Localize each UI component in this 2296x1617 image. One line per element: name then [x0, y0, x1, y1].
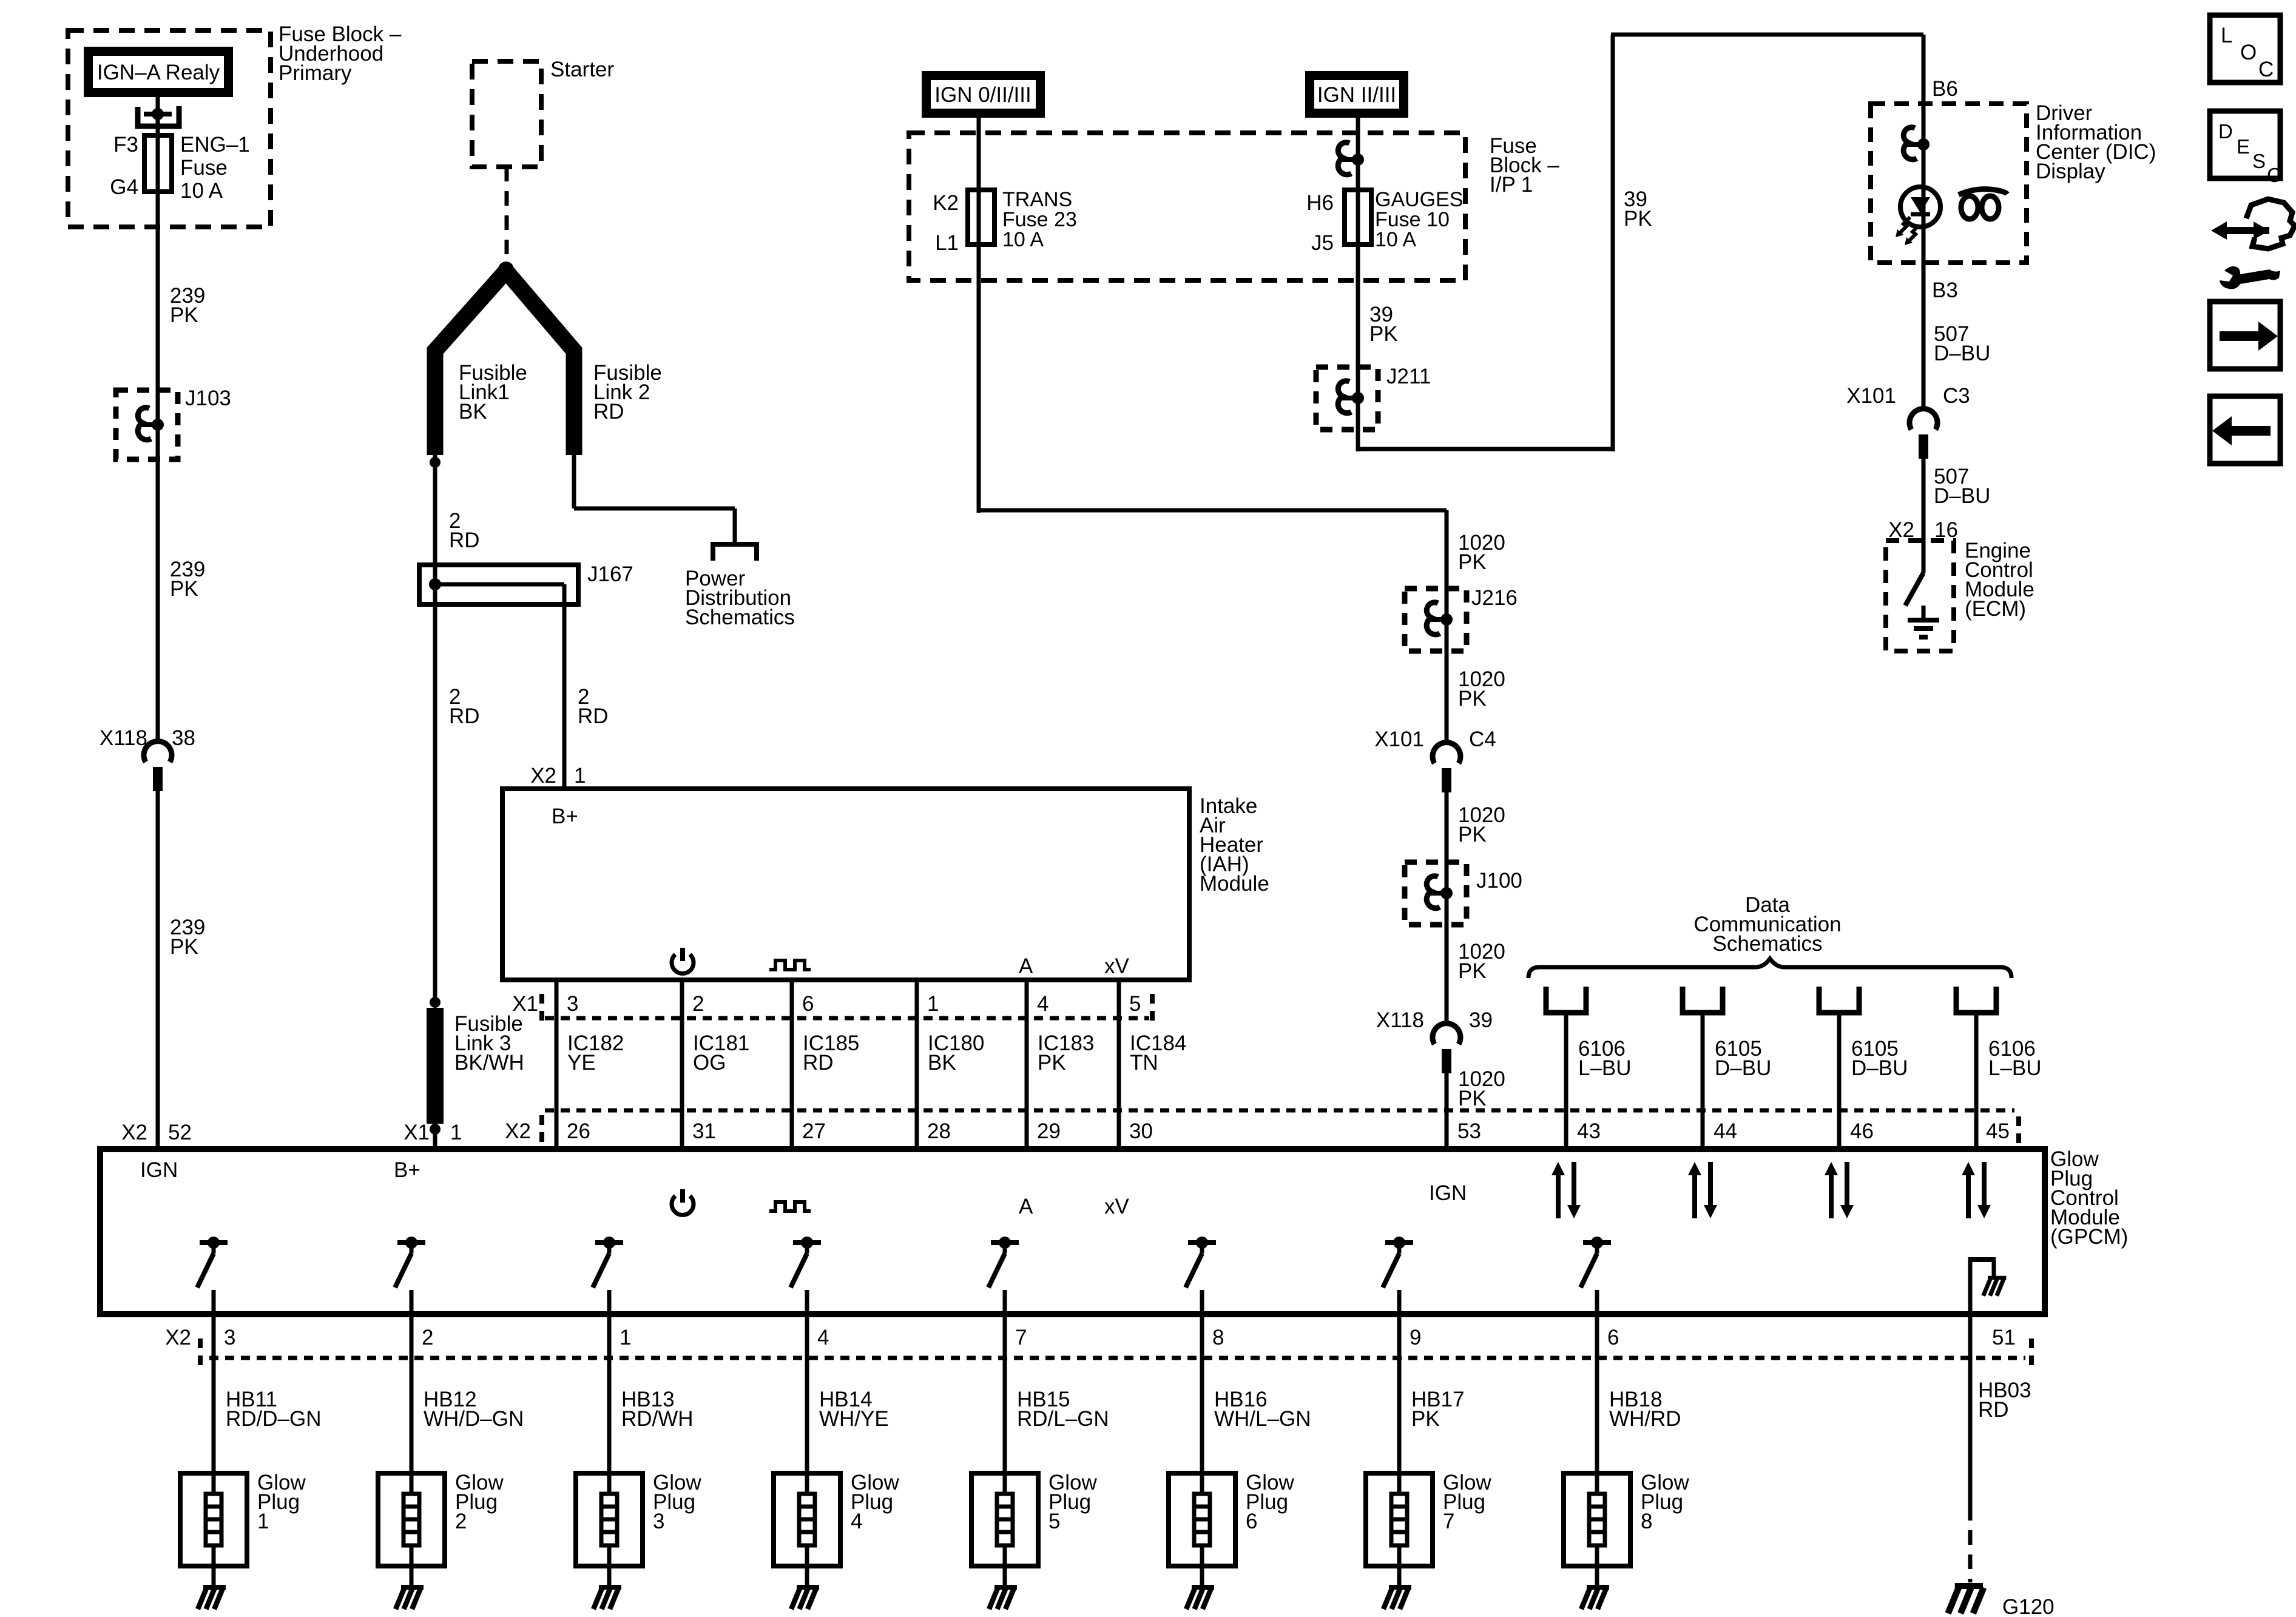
svg-text:8: 8: [1641, 1510, 1652, 1533]
wire link2 to power dist: [572, 455, 576, 508]
svg-text:J103: J103: [185, 387, 231, 410]
svg-text:(GPCM): (GPCM): [2050, 1225, 2128, 1249]
svg-text:39: 39: [1469, 1008, 1493, 1032]
svg-text:Module: Module: [1200, 872, 1269, 896]
data link connector 6106 L–BU: [1956, 987, 1996, 1013]
starter box: [472, 61, 541, 167]
switch for glow plug 6: [1188, 1240, 1216, 1245]
wire GPCM pin 7: [1003, 1290, 1007, 1473]
splice node in DIC: [1903, 127, 1917, 160]
wire trans fuse down: [977, 245, 981, 513]
splice J211: [1316, 367, 1378, 430]
wire 239 PK: [156, 459, 160, 739]
icon pwm (GPCM): [769, 1202, 811, 1211]
ECM box: [1886, 541, 1954, 651]
svg-text:PK: PK: [1369, 322, 1398, 346]
svg-text:5: 5: [1129, 992, 1141, 1016]
wire 1020 PK: [1445, 1072, 1449, 1149]
power distribution bracket: [713, 544, 757, 561]
svg-text:J167: J167: [587, 562, 633, 586]
svg-text:A: A: [1019, 1195, 1033, 1218]
wire HB03 RD: [1968, 1358, 1973, 1506]
wire: [1356, 118, 1360, 191]
svg-text:xV: xV: [1104, 1195, 1130, 1218]
relay pin cup: [138, 106, 179, 126]
svg-text:Schematics: Schematics: [1713, 932, 1823, 956]
wire 39 PK: [1356, 245, 1360, 367]
svg-text:IGN II/III: IGN II/III: [1317, 83, 1396, 107]
svg-text:2: 2: [422, 1326, 433, 1349]
wire 507 D-BU: [1922, 457, 1926, 541]
fuse block I/P box: [909, 133, 1465, 280]
splice node in fuse block: [1338, 143, 1351, 175]
wire to ground: [607, 1566, 612, 1586]
svg-text:43: 43: [1577, 1119, 1601, 1143]
svg-text:C: C: [2267, 164, 2281, 186]
svg-text:53: 53: [1457, 1119, 1481, 1143]
switch in ECM: [1922, 541, 1926, 573]
svg-text:1: 1: [257, 1510, 269, 1533]
relay IGN-A Realy: [84, 47, 233, 97]
arrows pin 45: [1966, 1173, 1971, 1218]
svg-text:ENG–1: ENG–1: [180, 133, 250, 157]
icon power (GPCM): [672, 1196, 694, 1215]
icon pwm (IAH): [769, 960, 811, 970]
svg-text:WH/D–GN: WH/D–GN: [424, 1407, 524, 1431]
glow plug 6: [1169, 1473, 1235, 1566]
wire 2 RD left: [433, 565, 437, 1002]
svg-text:38: 38: [172, 726, 195, 750]
wire dashed to G120: [1968, 1506, 1973, 1582]
wire to ground: [805, 1566, 809, 1586]
wire GPCM pin 8: [1200, 1290, 1204, 1473]
svg-text:WH/RD: WH/RD: [1609, 1407, 1681, 1431]
wire 1020 PK: [1445, 925, 1449, 1021]
svg-text:C3: C3: [1943, 384, 1970, 408]
svg-text:B6: B6: [1932, 77, 1958, 101]
wire: [1922, 104, 1926, 146]
wire IAH pin 3 to GPCM pin 26 (IC182 YE): [555, 980, 559, 1149]
wire 1020 PK: [1445, 651, 1449, 740]
svg-text:L–BU: L–BU: [1988, 1056, 2042, 1080]
svg-text:X2: X2: [530, 764, 556, 788]
svg-text:J5: J5: [1311, 231, 1334, 255]
splice J216: [1405, 589, 1467, 651]
svg-text:5: 5: [1048, 1510, 1060, 1533]
fusible link 1 BK: [435, 268, 508, 455]
ground in ECM: [1922, 606, 1926, 619]
wire IAH pin 6 to GPCM pin 27 (IC185 RD): [790, 980, 794, 1149]
svg-text:OG: OG: [693, 1051, 726, 1075]
svg-text:D–BU: D–BU: [1715, 1056, 1771, 1080]
svg-text:2: 2: [455, 1510, 467, 1533]
svg-text:28: 28: [927, 1119, 951, 1143]
svg-text:PK: PK: [1458, 687, 1487, 711]
wire: [1922, 144, 1926, 263]
ground G120: [1955, 1583, 1983, 1589]
wire GPCM pin 4: [805, 1290, 809, 1473]
svg-text:X101: X101: [1846, 384, 1896, 408]
fusible link 3 BK/WH: [430, 997, 441, 1008]
wire IAH pin 4 to GPCM pin 29 (IC183 PK): [1025, 980, 1029, 1149]
wire to ground: [1397, 1566, 1402, 1586]
svg-text:10 A: 10 A: [180, 179, 223, 203]
svg-text:4: 4: [817, 1326, 829, 1349]
wire 239 PK: [156, 790, 160, 1149]
svg-text:xV: xV: [1104, 954, 1130, 978]
ground glow plug 8: [1587, 1585, 1609, 1590]
wire 2 RD: [433, 455, 437, 565]
svg-text:X2: X2: [505, 1119, 531, 1143]
svg-text:PK: PK: [1458, 1087, 1487, 1110]
wire IAH pin 5 to GPCM pin 30 (IC184 TN): [1117, 980, 1121, 1149]
data link connector 6105 D–BU: [1819, 987, 1859, 1013]
svg-text:IGN: IGN: [140, 1158, 178, 1182]
glow plug 1: [180, 1473, 247, 1566]
svg-text:51: 51: [1992, 1326, 2016, 1349]
svg-text:7: 7: [1015, 1326, 1027, 1349]
svg-text:6: 6: [1246, 1510, 1257, 1533]
svg-text:6: 6: [802, 992, 814, 1016]
svg-text:RD: RD: [803, 1051, 834, 1075]
svg-text:RD: RD: [578, 704, 609, 728]
svg-text:29: 29: [1037, 1119, 1061, 1143]
svg-text:52: 52: [168, 1121, 192, 1144]
svg-text:D–BU: D–BU: [1934, 342, 1990, 365]
svg-text:G4: G4: [110, 175, 138, 199]
svg-text:30: 30: [1129, 1119, 1153, 1143]
data link connector 6105 D–BU: [1683, 987, 1723, 1013]
svg-text:A: A: [1019, 954, 1033, 978]
header IGN II/III: [1305, 71, 1408, 118]
svg-text:1: 1: [574, 764, 586, 788]
switch for glow plug 7: [1385, 1240, 1413, 1245]
switch for glow plug 2: [397, 1240, 425, 1245]
wire 6106 L–BU: [1564, 1015, 1568, 1149]
svg-text:RD/WH: RD/WH: [621, 1407, 694, 1431]
svg-text:S: S: [2252, 150, 2266, 172]
wire to ground: [1200, 1566, 1204, 1586]
svg-text:PK: PK: [1038, 1051, 1066, 1075]
svg-text:9: 9: [1410, 1326, 1421, 1349]
icon box DESC: [2210, 111, 2280, 178]
icon box left arrow: [2210, 396, 2280, 464]
ground glow plug 7: [1389, 1585, 1411, 1590]
svg-text:L1: L1: [935, 231, 959, 255]
svg-text:PK: PK: [170, 577, 198, 601]
svg-text:C: C: [2258, 58, 2274, 81]
icon box right arrow: [2210, 302, 2280, 369]
svg-text:3: 3: [224, 1326, 235, 1349]
svg-text:10 A: 10 A: [1002, 228, 1044, 251]
svg-text:Fuse: Fuse: [180, 156, 228, 180]
wire 1020 PK: [1445, 510, 1449, 589]
glow plug 8: [1564, 1473, 1630, 1566]
svg-text:PK: PK: [1458, 823, 1487, 846]
switch for glow plug 4: [793, 1240, 821, 1245]
svg-text:4: 4: [851, 1510, 862, 1533]
svg-text:31: 31: [692, 1119, 716, 1143]
svg-text:B+: B+: [394, 1158, 420, 1182]
svg-text:X2: X2: [165, 1326, 191, 1349]
svg-text:BK: BK: [459, 400, 487, 424]
svg-text:RD: RD: [449, 704, 480, 728]
svg-text:L: L: [2221, 24, 2232, 47]
wire 2 RD right branch: [562, 584, 567, 789]
svg-text:X1: X1: [403, 1121, 430, 1144]
node relay pin: [144, 112, 172, 116]
svg-text:10 A: 10 A: [1375, 228, 1416, 251]
svg-text:B+: B+: [552, 805, 578, 828]
wire trans horizontal: [979, 508, 1447, 513]
wire GPCM pin 2: [410, 1290, 414, 1473]
svg-text:IGN–A Realy: IGN–A Realy: [97, 61, 220, 84]
svg-text:PK: PK: [170, 935, 198, 959]
wire 6106 L–BU: [1974, 1015, 1979, 1149]
svg-text:B3: B3: [1932, 279, 1958, 302]
fuse K2 TRANS Fuse 23: [968, 190, 994, 245]
svg-text:RD/D–GN: RD/D–GN: [226, 1407, 322, 1431]
data link connector 6106 L–BU: [1546, 987, 1586, 1013]
DIC display box: [1871, 104, 2027, 263]
wire 6105 D–BU: [1837, 1015, 1842, 1149]
svg-text:Display: Display: [2036, 160, 2105, 183]
node below link1: [430, 457, 441, 468]
splice J103: [116, 390, 178, 459]
svg-text:K2: K2: [933, 191, 959, 215]
switch for glow plug 5: [991, 1240, 1019, 1245]
fuse F3 ENG-1: [144, 135, 172, 192]
wire dashed from starter: [505, 167, 509, 262]
LED indicator: [1900, 187, 1940, 227]
svg-text:J216: J216: [1471, 586, 1518, 610]
wire to ground: [212, 1566, 216, 1586]
svg-text:F3: F3: [113, 133, 138, 157]
glow plug 5: [971, 1473, 1038, 1566]
wire 1020 PK: [1445, 791, 1449, 862]
node in J167: [429, 578, 441, 590]
svg-text:2: 2: [692, 992, 704, 1016]
svg-text:I/P 1: I/P 1: [1490, 173, 1533, 197]
svg-text:RD: RD: [1978, 1398, 2009, 1422]
wire IAH pin 2 to GPCM pin 31 (IC181 OG): [680, 980, 684, 1149]
svg-text:D–BU: D–BU: [1934, 484, 1990, 508]
glow plug 4: [774, 1473, 840, 1566]
arrows pin 43: [1556, 1173, 1561, 1218]
svg-text:3: 3: [567, 992, 578, 1016]
svg-text:X1: X1: [512, 992, 538, 1016]
svg-text:X118: X118: [100, 726, 147, 750]
glow plug 3: [576, 1473, 643, 1566]
ground glow plug 6: [1192, 1585, 1214, 1590]
svg-text:RD/L–GN: RD/L–GN: [1017, 1407, 1109, 1431]
wire IAH pin 1 to GPCM pin 28 (IC180 BK): [915, 980, 919, 1149]
svg-text:WH/YE: WH/YE: [819, 1407, 889, 1431]
svg-text:H6: H6: [1306, 191, 1334, 215]
svg-text:D–BU: D–BU: [1851, 1056, 1908, 1080]
arrows pin 44: [1692, 1173, 1697, 1218]
module GPCM box: [100, 1149, 2045, 1314]
svg-text:IGN: IGN: [1429, 1181, 1467, 1205]
glow plug 2: [378, 1473, 445, 1566]
svg-text:8: 8: [1212, 1326, 1224, 1349]
ground glow plug 2: [401, 1585, 424, 1590]
wire GPCM pin 3: [212, 1290, 216, 1473]
arrows pin 46: [1829, 1173, 1834, 1218]
ground glow plug 5: [994, 1585, 1017, 1590]
svg-text:RD: RD: [593, 400, 624, 424]
wire to ground: [1003, 1566, 1007, 1586]
ground glow plug 1: [203, 1585, 226, 1590]
wire 6105 D–BU: [1701, 1015, 1705, 1149]
svg-text:C4: C4: [1469, 727, 1496, 751]
switch for glow plug 8: [1583, 1240, 1611, 1245]
wire: [156, 114, 160, 137]
svg-text:PK: PK: [1458, 959, 1487, 983]
wire GPCM pin 6: [1595, 1290, 1599, 1473]
svg-text:4: 4: [1037, 992, 1048, 1016]
svg-text:BK/WH: BK/WH: [454, 1051, 524, 1075]
svg-text:Starter: Starter: [550, 58, 614, 81]
svg-text:1: 1: [450, 1121, 462, 1144]
svg-text:Schematics: Schematics: [685, 606, 795, 629]
svg-text:IGN 0/II/III: IGN 0/II/III: [934, 83, 1031, 107]
svg-text:X101: X101: [1374, 727, 1424, 751]
svg-text:J211: J211: [1386, 365, 1431, 388]
svg-text:J100: J100: [1476, 869, 1522, 893]
svg-text:BK: BK: [928, 1051, 956, 1075]
svg-text:1: 1: [620, 1326, 631, 1349]
svg-text:WH/L–GN: WH/L–GN: [1214, 1407, 1311, 1431]
svg-text:TN: TN: [1130, 1051, 1158, 1075]
svg-text:7: 7: [1443, 1510, 1454, 1533]
header IGN 0/II/III: [922, 71, 1045, 118]
svg-text:E: E: [2237, 135, 2250, 158]
wire: [977, 118, 981, 191]
svg-text:44: 44: [1714, 1119, 1737, 1143]
svg-text:45: 45: [1986, 1119, 2010, 1143]
svg-text:L–BU: L–BU: [1578, 1056, 1632, 1080]
wire to ground: [410, 1566, 414, 1586]
fusible link 2 RD: [504, 268, 574, 455]
module IAH box: [502, 789, 1189, 980]
glow plug 7: [1366, 1473, 1433, 1566]
wire GPCM pin 1: [607, 1290, 612, 1473]
svg-text:RD: RD: [449, 528, 480, 552]
icon box LOC: [2210, 15, 2280, 83]
svg-text:3: 3: [653, 1510, 664, 1533]
svg-text:PK: PK: [1624, 207, 1652, 231]
svg-text:YE: YE: [567, 1051, 596, 1075]
switch for glow plug 1: [200, 1240, 228, 1245]
svg-text:D: D: [2218, 120, 2233, 143]
pin 51 internal ground: [1970, 1257, 1996, 1262]
ground glow plug 3: [599, 1585, 621, 1590]
svg-text:G120: G120: [2002, 1595, 2055, 1617]
svg-text:1: 1: [927, 992, 939, 1016]
splice J100: [1405, 862, 1467, 925]
fuse block underhood primary box: [68, 30, 271, 227]
icon hand wrench: [2246, 199, 2295, 249]
svg-text:PK: PK: [1411, 1407, 1440, 1431]
coil symbol: [1961, 196, 1978, 219]
svg-text:(ECM): (ECM): [1965, 597, 2026, 621]
svg-text:O: O: [2240, 41, 2257, 64]
wire GPCM pin 9: [1397, 1290, 1402, 1473]
junction block J167: [419, 565, 578, 604]
svg-text:PK: PK: [170, 303, 198, 327]
fuse H6 GAUGES Fuse 10: [1345, 190, 1371, 245]
wire to ground: [1595, 1566, 1599, 1586]
svg-text:X2: X2: [121, 1121, 147, 1144]
wire to DIC: [1356, 430, 1360, 451]
svg-text:Primary: Primary: [279, 61, 352, 85]
brace: [1528, 959, 2011, 978]
svg-text:PK: PK: [1458, 550, 1487, 574]
wire 239 PK: [156, 192, 160, 391]
wire: [156, 97, 160, 115]
wire pin 51: [1968, 1257, 1973, 1358]
icon power (IAH): [672, 954, 694, 973]
node fusible link junction: [498, 262, 514, 277]
switch for glow plug 3: [595, 1240, 623, 1245]
svg-text:6: 6: [1607, 1326, 1619, 1349]
svg-text:X118: X118: [1376, 1008, 1424, 1032]
svg-text:46: 46: [1850, 1119, 1874, 1143]
svg-text:27: 27: [802, 1119, 826, 1143]
ground glow plug 4: [797, 1585, 819, 1590]
svg-text:26: 26: [567, 1119, 590, 1143]
